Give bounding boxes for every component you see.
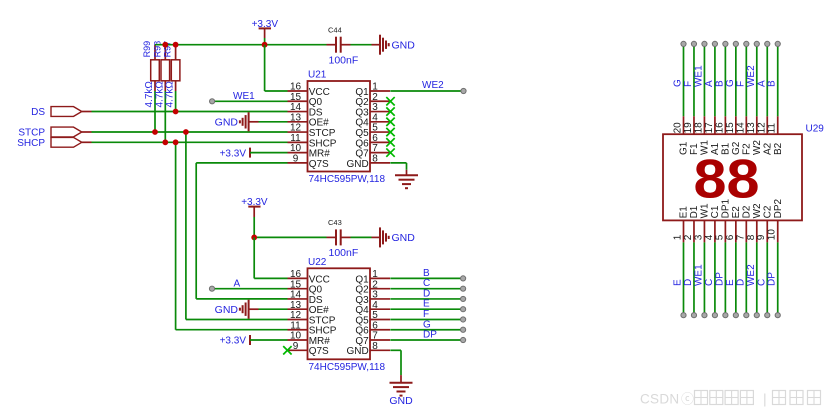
junction SHCP branch: [173, 139, 179, 145]
svg-text:B: B: [767, 80, 778, 87]
svg-text:C43: C43: [328, 218, 342, 227]
svg-text:8: 8: [746, 234, 757, 240]
svg-text:GND: GND: [392, 232, 416, 244]
svg-text:A2: A2: [762, 142, 773, 155]
svg-text:F1: F1: [689, 143, 700, 155]
svg-text:6: 6: [725, 234, 736, 240]
wire DP: [390, 339, 463, 341]
svg-text:20: 20: [673, 122, 684, 134]
pin 20 U29 top (G1): [673, 41, 690, 155]
wire A: [212, 288, 288, 290]
pin 5 U29 bottom (DP1): [714, 199, 731, 318]
svg-text:GND: GND: [392, 39, 416, 51]
svg-text:3: 3: [693, 234, 704, 240]
svg-text:WE1: WE1: [693, 65, 704, 87]
pin 12 U29 top (A2): [756, 41, 773, 155]
power GND (U22 rail): [380, 227, 415, 247]
power +3.3V (U22 rail): [241, 197, 268, 237]
wire WE2: [390, 90, 463, 92]
pin 13 U29 top (W2): [746, 41, 763, 155]
pin 11 U29 top (B2): [767, 41, 784, 155]
pin 14 U29 top (F2): [735, 41, 752, 155]
ground U22 GND: [389, 383, 413, 408]
svg-text:A1: A1: [710, 142, 721, 155]
svg-text:8: 8: [372, 341, 378, 352]
svg-text:19: 19: [683, 122, 694, 134]
power GND at U22 OE#: [215, 300, 288, 319]
wire SHCP net: [82, 141, 288, 143]
wire STCP branch to U22: [186, 132, 288, 320]
capacitor C43: [327, 218, 359, 259]
pin 19 U29 top (F1): [683, 41, 700, 155]
svg-text:C: C: [704, 279, 715, 286]
wire +3.3V rail 2: [254, 236, 326, 238]
svg-text:12: 12: [756, 122, 767, 134]
watermark CSDN: [640, 391, 821, 407]
svg-text:|: |: [763, 391, 767, 407]
svg-text:WE1: WE1: [233, 91, 255, 102]
svg-text:18: 18: [693, 122, 704, 134]
svg-text:F2: F2: [742, 143, 753, 155]
svg-text:+3.3V: +3.3V: [220, 148, 247, 159]
wire B: [390, 277, 463, 279]
svg-text:100nF: 100nF: [329, 247, 359, 259]
pin 9 U29 bottom (C2): [756, 205, 773, 318]
svg-text:B2: B2: [773, 142, 784, 155]
capacitor C44: [327, 26, 359, 67]
7-segment display U29: [663, 134, 802, 220]
svg-text:CSDN: CSDN: [640, 392, 679, 407]
node A endpoint: [209, 286, 214, 291]
junction R98 / SHCP: [162, 139, 168, 145]
power GND (top rail): [380, 35, 415, 55]
svg-text:C2: C2: [762, 205, 773, 218]
port STCP: [18, 127, 81, 139]
transistor U22 74HC595PW: [288, 257, 391, 373]
svg-text:17: 17: [704, 122, 715, 134]
node E endpoint: [461, 307, 466, 312]
pin 15 U29 top (G2): [725, 41, 742, 155]
svg-text:U21: U21: [308, 70, 327, 81]
svg-text:DP: DP: [767, 272, 778, 286]
node F endpoint: [461, 317, 466, 322]
svg-text:DP2: DP2: [773, 199, 784, 219]
svg-text:WE2: WE2: [746, 65, 757, 87]
svg-text:9: 9: [293, 341, 299, 352]
svg-text:8: 8: [372, 153, 378, 164]
svg-text:10: 10: [767, 229, 778, 241]
svg-text:DS: DS: [31, 107, 45, 118]
port DS: [31, 107, 82, 119]
svg-text:2: 2: [683, 234, 694, 240]
pin 16 U29 top (B1): [714, 41, 731, 155]
svg-text:U22: U22: [308, 257, 327, 268]
svg-text:7: 7: [735, 234, 746, 240]
power +3.3V at U21 MR#: [220, 148, 288, 160]
wire G: [390, 329, 463, 331]
svg-text:4: 4: [704, 234, 715, 240]
svg-text:W2: W2: [752, 203, 763, 218]
pin 1 U29 bottom (E1): [673, 206, 690, 318]
wire C: [390, 288, 463, 290]
node C endpoint: [461, 286, 466, 291]
svg-text:74HC595PW,118: 74HC595PW,118: [309, 174, 386, 185]
svg-text:E1: E1: [679, 206, 690, 219]
wire WE1: [212, 100, 287, 102]
junction R97 top / rail: [173, 42, 179, 48]
svg-text:D1: D1: [689, 205, 700, 218]
junction +3.3V rail / VCC U21: [262, 42, 268, 48]
svg-text:G: G: [725, 79, 736, 87]
svg-text:G: G: [673, 79, 684, 87]
wire +3.3V rail top: [155, 44, 327, 46]
svg-text:GND: GND: [215, 304, 239, 316]
power +3.3V (top rail): [252, 19, 279, 45]
svg-text:ⓒ: ⓒ: [681, 392, 694, 407]
pin 3 U29 bottom (W1): [693, 203, 710, 318]
pin 6 U29 bottom (E2): [725, 206, 742, 318]
svg-text:WE2: WE2: [746, 264, 757, 286]
svg-text:E2: E2: [731, 206, 742, 219]
svg-text:5: 5: [714, 234, 725, 240]
svg-text:DP1: DP1: [721, 199, 732, 219]
svg-text:G2: G2: [731, 141, 742, 155]
svg-text:WE2: WE2: [422, 80, 444, 91]
svg-text:B1: B1: [721, 142, 732, 155]
svg-text:C44: C44: [328, 26, 342, 35]
junction R98 top / rail: [162, 42, 168, 48]
svg-text:9: 9: [756, 234, 767, 240]
junction +3.3V rail 2: [251, 235, 257, 241]
svg-text:B: B: [714, 80, 725, 87]
svg-text:DP: DP: [423, 330, 437, 341]
pin 18 U29 top (W1): [693, 41, 710, 155]
svg-text:W2: W2: [752, 140, 763, 155]
svg-text:4.7kΩ: 4.7kΩ: [165, 81, 176, 108]
wire Q7S U21 to DS U22: [196, 163, 287, 299]
svg-text:GND: GND: [389, 395, 413, 407]
svg-text:GND: GND: [215, 117, 239, 129]
wire U22 GND pin 8: [390, 350, 401, 382]
svg-text:11: 11: [767, 123, 778, 134]
node D endpoint: [461, 296, 466, 301]
node DP endpoint: [461, 337, 466, 342]
svg-text:+3.3V: +3.3V: [220, 336, 247, 347]
resistor R99: [142, 41, 159, 132]
svg-text:A: A: [704, 80, 715, 87]
no-connect X U21 pin 5: [386, 128, 394, 136]
svg-text:R98: R98: [152, 41, 162, 58]
pin 2 U29 bottom (D1): [683, 205, 700, 318]
node WE2 endpoint: [461, 88, 466, 93]
wire VCC U22: [254, 237, 287, 278]
wire STCP net: [82, 131, 288, 133]
svg-text:GND: GND: [346, 159, 368, 170]
svg-text:W1: W1: [700, 140, 711, 155]
power +3.3V at U22 MR#: [220, 335, 288, 347]
svg-text:A: A: [234, 278, 241, 289]
wire DS net: [82, 111, 288, 113]
op-amp U21 74HC595PW: [288, 70, 391, 186]
no-connect X U21 pin 7: [386, 148, 394, 156]
svg-text:C: C: [756, 279, 767, 286]
power GND at U21 OE#: [215, 112, 288, 131]
svg-text:14: 14: [735, 122, 746, 134]
no-connect X U21 pin 3: [386, 107, 394, 115]
svg-text:DP: DP: [714, 272, 725, 286]
junction STCP branch: [183, 129, 189, 135]
no-connect X U21 pin 6: [386, 138, 394, 146]
port SHCP: [17, 137, 82, 149]
svg-text:1: 1: [673, 234, 684, 240]
svg-text:100nF: 100nF: [329, 55, 359, 67]
svg-text:A: A: [756, 80, 767, 87]
wire SHCP branch to U22: [176, 142, 288, 329]
svg-text:WE1: WE1: [693, 264, 704, 286]
resistor R98: [152, 41, 169, 142]
pin 10 U29 bottom (DP2): [767, 199, 784, 318]
wire D: [390, 298, 463, 300]
ground U21: [395, 175, 418, 188]
pin 4 U29 bottom (C1): [704, 205, 721, 318]
node WE1 endpoint: [210, 99, 215, 104]
svg-text:13: 13: [746, 122, 757, 134]
svg-text:F: F: [683, 81, 694, 87]
svg-text:74HC595PW,118: 74HC595PW,118: [309, 362, 386, 373]
pin 7 U29 bottom (D2): [735, 205, 752, 318]
svg-text:D: D: [735, 279, 746, 286]
svg-text:E: E: [673, 279, 684, 286]
wire F: [390, 318, 463, 320]
wire C43 to GND: [351, 236, 381, 238]
svg-text:GND: GND: [346, 346, 368, 357]
no-connect X U22 Q7S: [283, 346, 291, 354]
svg-text:D2: D2: [742, 205, 753, 218]
svg-text:16: 16: [714, 122, 725, 134]
svg-text:Q7S: Q7S: [309, 346, 329, 357]
svg-text:9: 9: [293, 153, 299, 164]
svg-text:R99: R99: [142, 41, 152, 58]
node B endpoint: [461, 276, 466, 281]
wire C44 to GND: [351, 44, 381, 46]
svg-text:C1: C1: [710, 205, 721, 218]
svg-text:F: F: [735, 81, 746, 87]
junction R97 / DS: [173, 109, 179, 115]
svg-text:W1: W1: [700, 203, 711, 218]
junction R99 / STCP: [152, 129, 158, 135]
svg-text:U29: U29: [806, 124, 825, 135]
resistor R97: [163, 41, 180, 112]
wire E: [390, 308, 463, 310]
svg-text:15: 15: [725, 122, 736, 134]
wire VCC U21: [265, 45, 288, 91]
no-connect X U21 pin 4: [386, 118, 394, 126]
pin 8 U29 bottom (W2): [746, 203, 763, 318]
svg-text:D: D: [683, 279, 694, 286]
svg-text:G1: G1: [679, 141, 690, 155]
svg-text:Q7S: Q7S: [309, 159, 329, 170]
svg-text:E: E: [725, 279, 736, 286]
svg-text:SHCP: SHCP: [17, 138, 45, 149]
no-connect X U21 pin 2: [386, 97, 394, 105]
node G endpoint: [461, 327, 466, 332]
pin 17 U29 top (A1): [704, 41, 721, 155]
wire U21 GND pin 8: [390, 163, 406, 175]
